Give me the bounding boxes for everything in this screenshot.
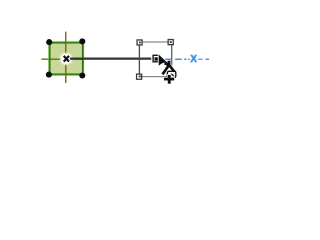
node A: green source vertex fill xyxy=(51,44,83,74)
center connection marker x xyxy=(64,56,69,62)
handle BL of target rect xyxy=(137,74,142,79)
cursor tail right leg xyxy=(169,65,175,72)
node B: target rectangle outline xyxy=(139,42,172,77)
handle TL of target rect xyxy=(137,40,142,45)
plus sign xyxy=(164,75,174,84)
cursor badge rounded box xyxy=(167,71,175,77)
cursor tail left leg xyxy=(163,65,169,74)
white halo around center marker xyxy=(59,52,73,66)
handle BL of green vertex xyxy=(46,72,52,78)
green vertex inner dark border xyxy=(50,43,83,74)
wire: edge line xyxy=(70,58,151,60)
cursor tail stem xyxy=(168,61,171,67)
handle BR of green vertex xyxy=(79,72,85,78)
handle TR of green vertex xyxy=(79,38,85,44)
cursor arrow head xyxy=(159,55,169,66)
badge inner mark xyxy=(171,74,173,76)
node X: white halo xyxy=(189,54,197,62)
handle TR of target rect xyxy=(168,40,173,45)
cursor white underlay xyxy=(159,55,176,75)
blue dashed guide line xyxy=(166,58,209,60)
svg-text:X: X xyxy=(190,54,197,65)
crosshair vertical line xyxy=(65,32,67,83)
green vertex outer bright border xyxy=(49,42,84,75)
crosshair horizontal line xyxy=(41,58,83,60)
plus sign white outline xyxy=(163,74,175,84)
endpoint box: center connection target xyxy=(153,55,160,62)
handle TL of green vertex xyxy=(46,39,52,45)
